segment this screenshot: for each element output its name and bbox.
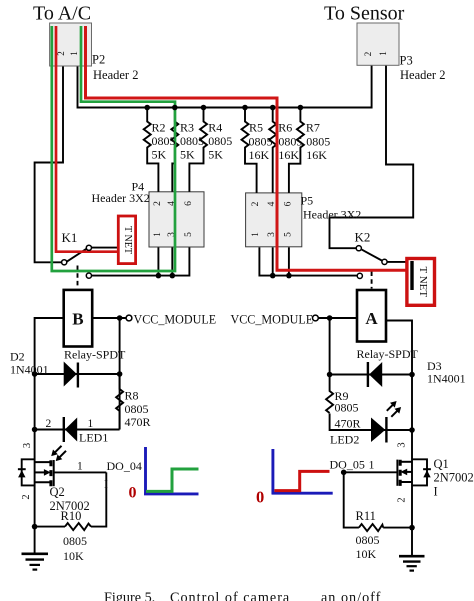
transistor Q2 2N7002 (18, 459, 54, 486)
node K2 lower throw (357, 273, 362, 278)
transistor Q1 2N7002 (397, 459, 431, 486)
svg-text:0805: 0805 (208, 134, 232, 148)
svg-text:LED2: LED2 (330, 433, 359, 447)
junction LED2 rail (409, 427, 415, 433)
junction R8 top / D2 cathode (117, 371, 123, 377)
wire K1 blade (67, 249, 87, 262)
svg-text:5K: 5K (180, 148, 195, 162)
node VCC_MODULE right (313, 315, 319, 321)
svg-text:6: 6 (284, 201, 294, 206)
svg-text:R3: R3 (180, 121, 194, 135)
wire P5 pin3 drop (272, 247, 274, 275)
svg-text:R11: R11 (356, 509, 376, 523)
svg-text:P5: P5 (301, 194, 314, 208)
svg-text:2N7002: 2N7002 (434, 471, 474, 485)
svg-text:2: 2 (21, 494, 32, 499)
svg-text:1: 1 (153, 232, 163, 237)
svg-text:0805: 0805 (125, 402, 149, 416)
resistor R7 (289, 108, 304, 193)
svg-text:0805: 0805 (356, 533, 380, 547)
wire K2 pole to T_NET stub (387, 261, 408, 263)
junction R5 top (242, 105, 248, 111)
wire K1 lower throw to P4 pins 1,3,5 (92, 248, 190, 276)
junction D3 cathode rail (409, 372, 415, 378)
wire K1 upper throw to T_NET (92, 247, 120, 249)
svg-text:10K: 10K (356, 547, 377, 561)
wire P2 pin2 to K1 pole (35, 64, 63, 262)
svg-text:470R: 470R (335, 417, 361, 431)
svg-text:16K: 16K (249, 148, 270, 162)
svg-text:1: 1 (69, 51, 79, 56)
svg-text:P3: P3 (400, 54, 413, 68)
svg-text:16K: 16K (278, 148, 299, 162)
open terminals (62, 245, 388, 321)
svg-text:470R: 470R (125, 415, 151, 429)
resistor R6 (269, 108, 276, 193)
wire K2 blade (362, 250, 384, 262)
svg-text:R5: R5 (249, 121, 263, 135)
svg-text:0: 0 (129, 485, 137, 502)
resistor R2 (144, 108, 159, 192)
svg-text:1: 1 (369, 458, 375, 472)
svg-text:an on/off: an on/off (321, 590, 381, 601)
svg-text:0805: 0805 (278, 135, 302, 149)
svg-text:I: I (104, 477, 108, 491)
net label T_NET right (red box) (407, 259, 435, 306)
svg-text:5: 5 (284, 232, 294, 237)
svg-text:2: 2 (363, 52, 373, 57)
waveform DO_04 trace (146, 469, 199, 491)
header P5 (246, 193, 302, 247)
svg-text:2: 2 (46, 418, 52, 430)
junction R6 top (270, 105, 276, 111)
svg-text:B: B (72, 310, 83, 329)
junction R7 top (298, 105, 304, 111)
svg-text:1N4001: 1N4001 (10, 363, 49, 377)
svg-text:R2: R2 (152, 121, 166, 135)
node K1 lower throw (86, 273, 91, 278)
svg-text:R7: R7 (306, 121, 320, 135)
svg-text:DO_05: DO_05 (330, 458, 365, 472)
wire relay A right to right rail down to ground (386, 321, 412, 557)
svg-text:R6: R6 (278, 121, 292, 135)
svg-text:0805: 0805 (335, 401, 359, 415)
wire DO_04 down to R10 (91, 472, 106, 526)
resistor R8 (116, 374, 123, 430)
svg-text:1: 1 (251, 232, 261, 237)
junction DO_05 gate node (341, 470, 347, 476)
wire LED1 row (35, 429, 120, 431)
svg-text:6: 6 (184, 201, 194, 206)
LED1 (51, 417, 77, 461)
wire DO_05 down to R11 (344, 472, 359, 527)
wire D3 row (330, 374, 412, 376)
waveform DO_05 trace (274, 471, 329, 490)
svg-text:P2: P2 (92, 53, 105, 67)
svg-text:Header 2: Header 2 (400, 68, 445, 82)
svg-text:10K: 10K (63, 549, 84, 563)
resistor R10 (65, 523, 91, 530)
svg-text:Q1: Q1 (434, 457, 449, 471)
svg-text:0805: 0805 (152, 134, 176, 148)
waveform DO_05 axes (272, 449, 333, 495)
wire VCC_MODULE right to relay A (318, 317, 357, 319)
svg-text:Relay-SPDT: Relay-SPDT (64, 348, 126, 362)
resistor R11 (359, 524, 383, 531)
junction R11 rail (409, 525, 415, 531)
junction D3 anode / R9 top (327, 372, 333, 378)
resistor R9 (326, 375, 333, 414)
svg-text:1: 1 (77, 461, 83, 473)
svg-text:VCC_MODULE: VCC_MODULE (134, 313, 217, 327)
net label T_NET left (red box) (118, 216, 135, 264)
svg-text:1: 1 (88, 418, 94, 430)
CONNECTORS (65, 108, 383, 532)
wire P4 pin1 drop (157, 248, 159, 276)
header P4 (149, 192, 204, 247)
svg-text:16K: 16K (306, 148, 327, 162)
junction VCC left rail (117, 315, 123, 321)
junction R3 top (172, 105, 178, 111)
ground (left) (22, 554, 49, 570)
svg-text:0805: 0805 (180, 134, 204, 148)
svg-text:R8: R8 (125, 389, 139, 403)
wire P2 pin1 to top bus (78, 64, 372, 108)
svg-text:LED1: LED1 (79, 431, 108, 445)
wire LED2 row (330, 414, 412, 431)
svg-text:2: 2 (251, 201, 261, 206)
LED2 (371, 401, 401, 443)
waveform DO_04 axes (144, 447, 199, 495)
svg-text:Relay-SPDT: Relay-SPDT (357, 347, 419, 361)
svg-text:D2: D2 (10, 350, 25, 364)
junction P5 pin3 (270, 273, 276, 279)
svg-text:5K: 5K (152, 148, 167, 162)
svg-text:DO_04: DO_04 (107, 459, 142, 473)
svg-text:2: 2 (153, 201, 163, 206)
wire T_NET right stub (410, 261, 413, 290)
header P3 (357, 23, 399, 65)
svg-text:T NET: T NET (417, 266, 429, 297)
wire Q1 gate from DO_05 (344, 471, 398, 473)
diode D2 1N4001 (64, 362, 78, 388)
svg-text:2: 2 (397, 497, 408, 502)
svg-text:0805: 0805 (306, 135, 330, 149)
junction R10 rail (32, 524, 38, 530)
svg-text:5: 5 (184, 232, 194, 237)
node K2 pole (382, 259, 387, 264)
svg-text:Header 3X2: Header 3X2 (92, 191, 150, 205)
junction VCC right rail (327, 315, 333, 321)
node K1 upper throw (86, 245, 91, 250)
junction P5 pin5 (286, 273, 292, 279)
svg-text:5K: 5K (208, 148, 223, 162)
svg-text:Header 2: Header 2 (93, 68, 138, 82)
junction R4 top (201, 105, 207, 111)
junction R2 top (144, 105, 150, 111)
wire red right (A/C to T_NET right) (86, 26, 407, 270)
wire Q2 gate to DO_04 (54, 471, 107, 473)
wire P5 pin5 drop (288, 247, 290, 275)
svg-text:Q2: Q2 (50, 485, 65, 499)
relay K2 coil A (357, 290, 386, 342)
svg-text:To Sensor: To Sensor (324, 3, 405, 25)
wire R11 right to rail (383, 527, 412, 529)
junction LED1 rail (32, 427, 38, 433)
svg-text:0: 0 (256, 488, 264, 507)
wire VCC right rail left segment (119, 318, 121, 430)
resistor R3 (171, 108, 178, 192)
svg-text:2: 2 (56, 51, 66, 56)
svg-text:To A/C: To A/C (33, 3, 91, 25)
svg-text:K1: K1 (62, 230, 78, 245)
wire green A/C loop (52, 26, 175, 271)
svg-text:Figure 5.: Figure 5. (104, 590, 155, 601)
svg-text:Header 3X2: Header 3X2 (303, 208, 361, 222)
svg-text:R10: R10 (61, 509, 82, 523)
svg-text:0805: 0805 (63, 534, 87, 548)
wire D2 row (35, 373, 120, 375)
relay K1 coil B (64, 290, 92, 347)
junction D2 anode rail (32, 371, 38, 377)
wire R10 left to rail (35, 526, 65, 528)
wire A-circuit left rail (329, 318, 331, 375)
wire P4 pin3 drop (171, 248, 173, 276)
svg-text:VCC_MODULE: VCC_MODULE (231, 313, 314, 327)
wire K2 coil dashed link (371, 272, 373, 289)
node VCC_MODULE left (126, 315, 132, 321)
svg-text:R4: R4 (208, 121, 222, 135)
ground (right) (399, 556, 425, 570)
svg-text:A: A (365, 309, 378, 328)
wire P3 pin1 to K2 upper throw (330, 64, 414, 248)
COLORWIRES (32, 105, 415, 531)
svg-text:1: 1 (378, 51, 388, 56)
junction P4 pin3 (170, 273, 176, 279)
svg-text:1N4001: 1N4001 (427, 372, 466, 386)
wire relay B left to left rail, down to ground (35, 318, 64, 553)
svg-text:3: 3 (22, 443, 33, 448)
wire relay B right to VCC circle (92, 317, 126, 319)
svg-text:0805: 0805 (249, 135, 273, 149)
svg-text:I: I (434, 485, 438, 499)
svg-text:3: 3 (397, 442, 408, 447)
resistor R5 (242, 108, 257, 193)
junction P4 pin1 (156, 273, 162, 279)
diode D3 1N4001 (368, 362, 382, 387)
svg-text:K2: K2 (355, 230, 371, 245)
resistor R4 (189, 108, 207, 192)
header P2 (50, 23, 92, 66)
wire P5 pins to K2 lower throw (259, 247, 357, 275)
svg-text:T NET: T NET (122, 226, 133, 254)
wire K1 coil dashed link (77, 266, 79, 289)
svg-text:Control of camera: Control of camera (170, 590, 290, 601)
node K2 upper throw (356, 246, 361, 251)
node K1 pole (62, 260, 67, 265)
wire red left (A/C hot to T_NET) (56, 26, 118, 252)
